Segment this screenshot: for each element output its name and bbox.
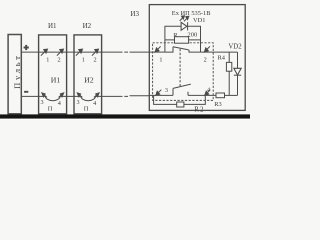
- top switch blade: [173, 47, 189, 50]
- bottom switch blade (open): [173, 84, 191, 88]
- top switch right stub: [189, 50, 201, 52]
- resistor R4 body: [226, 62, 231, 71]
- svg-text:И2: И2: [84, 75, 94, 84]
- svg-text:1: 1: [46, 56, 49, 63]
- diode VD2: [237, 52, 239, 68]
- I1 pin 2: [57, 49, 64, 56]
- svg-text:И1: И1: [48, 22, 57, 30]
- indicator loop left leg: [164, 40, 166, 52]
- svg-text:1: 1: [159, 57, 162, 64]
- svg-text:Ex ИП 535-1В: Ex ИП 535-1В: [172, 10, 211, 17]
- LED VD1: [181, 22, 188, 30]
- svg-text:R2: R2: [194, 106, 204, 114]
- wire pin2 exit to VD2 branch: [213, 51, 237, 53]
- I3 pin 2: [204, 46, 210, 52]
- I1 pin 3: [42, 93, 47, 98]
- mechanical link dashed: [179, 49, 181, 86]
- wire R3 to end nodes: [225, 94, 238, 96]
- svg-text:3: 3: [165, 87, 168, 94]
- svg-text:4: 4: [93, 100, 96, 107]
- svg-text:3: 3: [77, 99, 80, 106]
- I1 pin 1: [41, 49, 48, 56]
- I3 pin 1: [155, 46, 161, 52]
- svg-text:R3: R3: [214, 101, 221, 108]
- jumper P arc I2: [81, 96, 96, 100]
- indicator loop right leg: [200, 40, 202, 52]
- dashed enclosure I3: [153, 43, 214, 101]
- resistor R body: [175, 37, 189, 44]
- svg-text:1: 1: [82, 56, 85, 63]
- I1 pin 4: [59, 93, 64, 98]
- svg-text:И3: И3: [130, 10, 139, 18]
- resistor R4 branch: [228, 52, 230, 95]
- wire stub to pin4 and R3: [188, 94, 216, 96]
- I2 pin 2: [92, 49, 99, 56]
- bypass wire with R2: [154, 95, 206, 104]
- svg-text:VD1: VD1: [193, 17, 205, 24]
- svg-text:R4: R4: [218, 55, 226, 62]
- bottom black bar: [0, 114, 250, 118]
- resistor R3 body: [216, 93, 225, 98]
- svg-text:И2: И2: [83, 22, 92, 30]
- terminal plus: [24, 45, 29, 50]
- top switch left riser: [165, 47, 173, 52]
- outer frame of detector I3: [149, 5, 245, 111]
- wire top: panel to I1 to I2: [21, 51, 101, 53]
- control panel box Пульт: [8, 35, 21, 114]
- I2 pin 1: [76, 49, 83, 56]
- svg-text:Пульт: Пульт: [12, 53, 22, 89]
- terminal minus: [24, 91, 28, 93]
- svg-text:И1: И1: [51, 75, 61, 84]
- wire top: I2 to frame with break: [102, 51, 153, 53]
- I2 pin 3: [77, 93, 82, 98]
- svg-text:П: П: [84, 106, 89, 113]
- bottom switch right stub: [187, 92, 189, 96]
- detector box I1: [39, 35, 67, 114]
- wire pin2 to dashed edge: [201, 51, 214, 53]
- I3 pin 4: [205, 90, 211, 96]
- svg-text:П: П: [48, 106, 53, 113]
- jumper P arc I1: [45, 96, 60, 100]
- detector box I2: [74, 35, 102, 114]
- wire bottom: panel through I1,I2 (gaps at jumpers): [21, 95, 149, 98]
- wire bottom: frame to riser: [149, 94, 173, 96]
- I2 pin 4: [94, 93, 99, 98]
- svg-text:VD2: VD2: [228, 43, 242, 50]
- svg-text:4: 4: [207, 86, 210, 93]
- I3 pin 3: [156, 90, 162, 96]
- svg-text:2: 2: [58, 57, 61, 64]
- svg-text:4: 4: [58, 100, 61, 107]
- svg-text:2: 2: [94, 57, 97, 64]
- svg-text:2: 2: [204, 56, 207, 63]
- resistor R2 body: [177, 102, 184, 107]
- indicator loop wires: [165, 26, 201, 40]
- svg-text:3: 3: [41, 99, 44, 106]
- VD1 emission arrows: [180, 16, 189, 22]
- bottom switch left riser: [172, 88, 174, 95]
- wire: frame to loop left leg: [153, 51, 165, 53]
